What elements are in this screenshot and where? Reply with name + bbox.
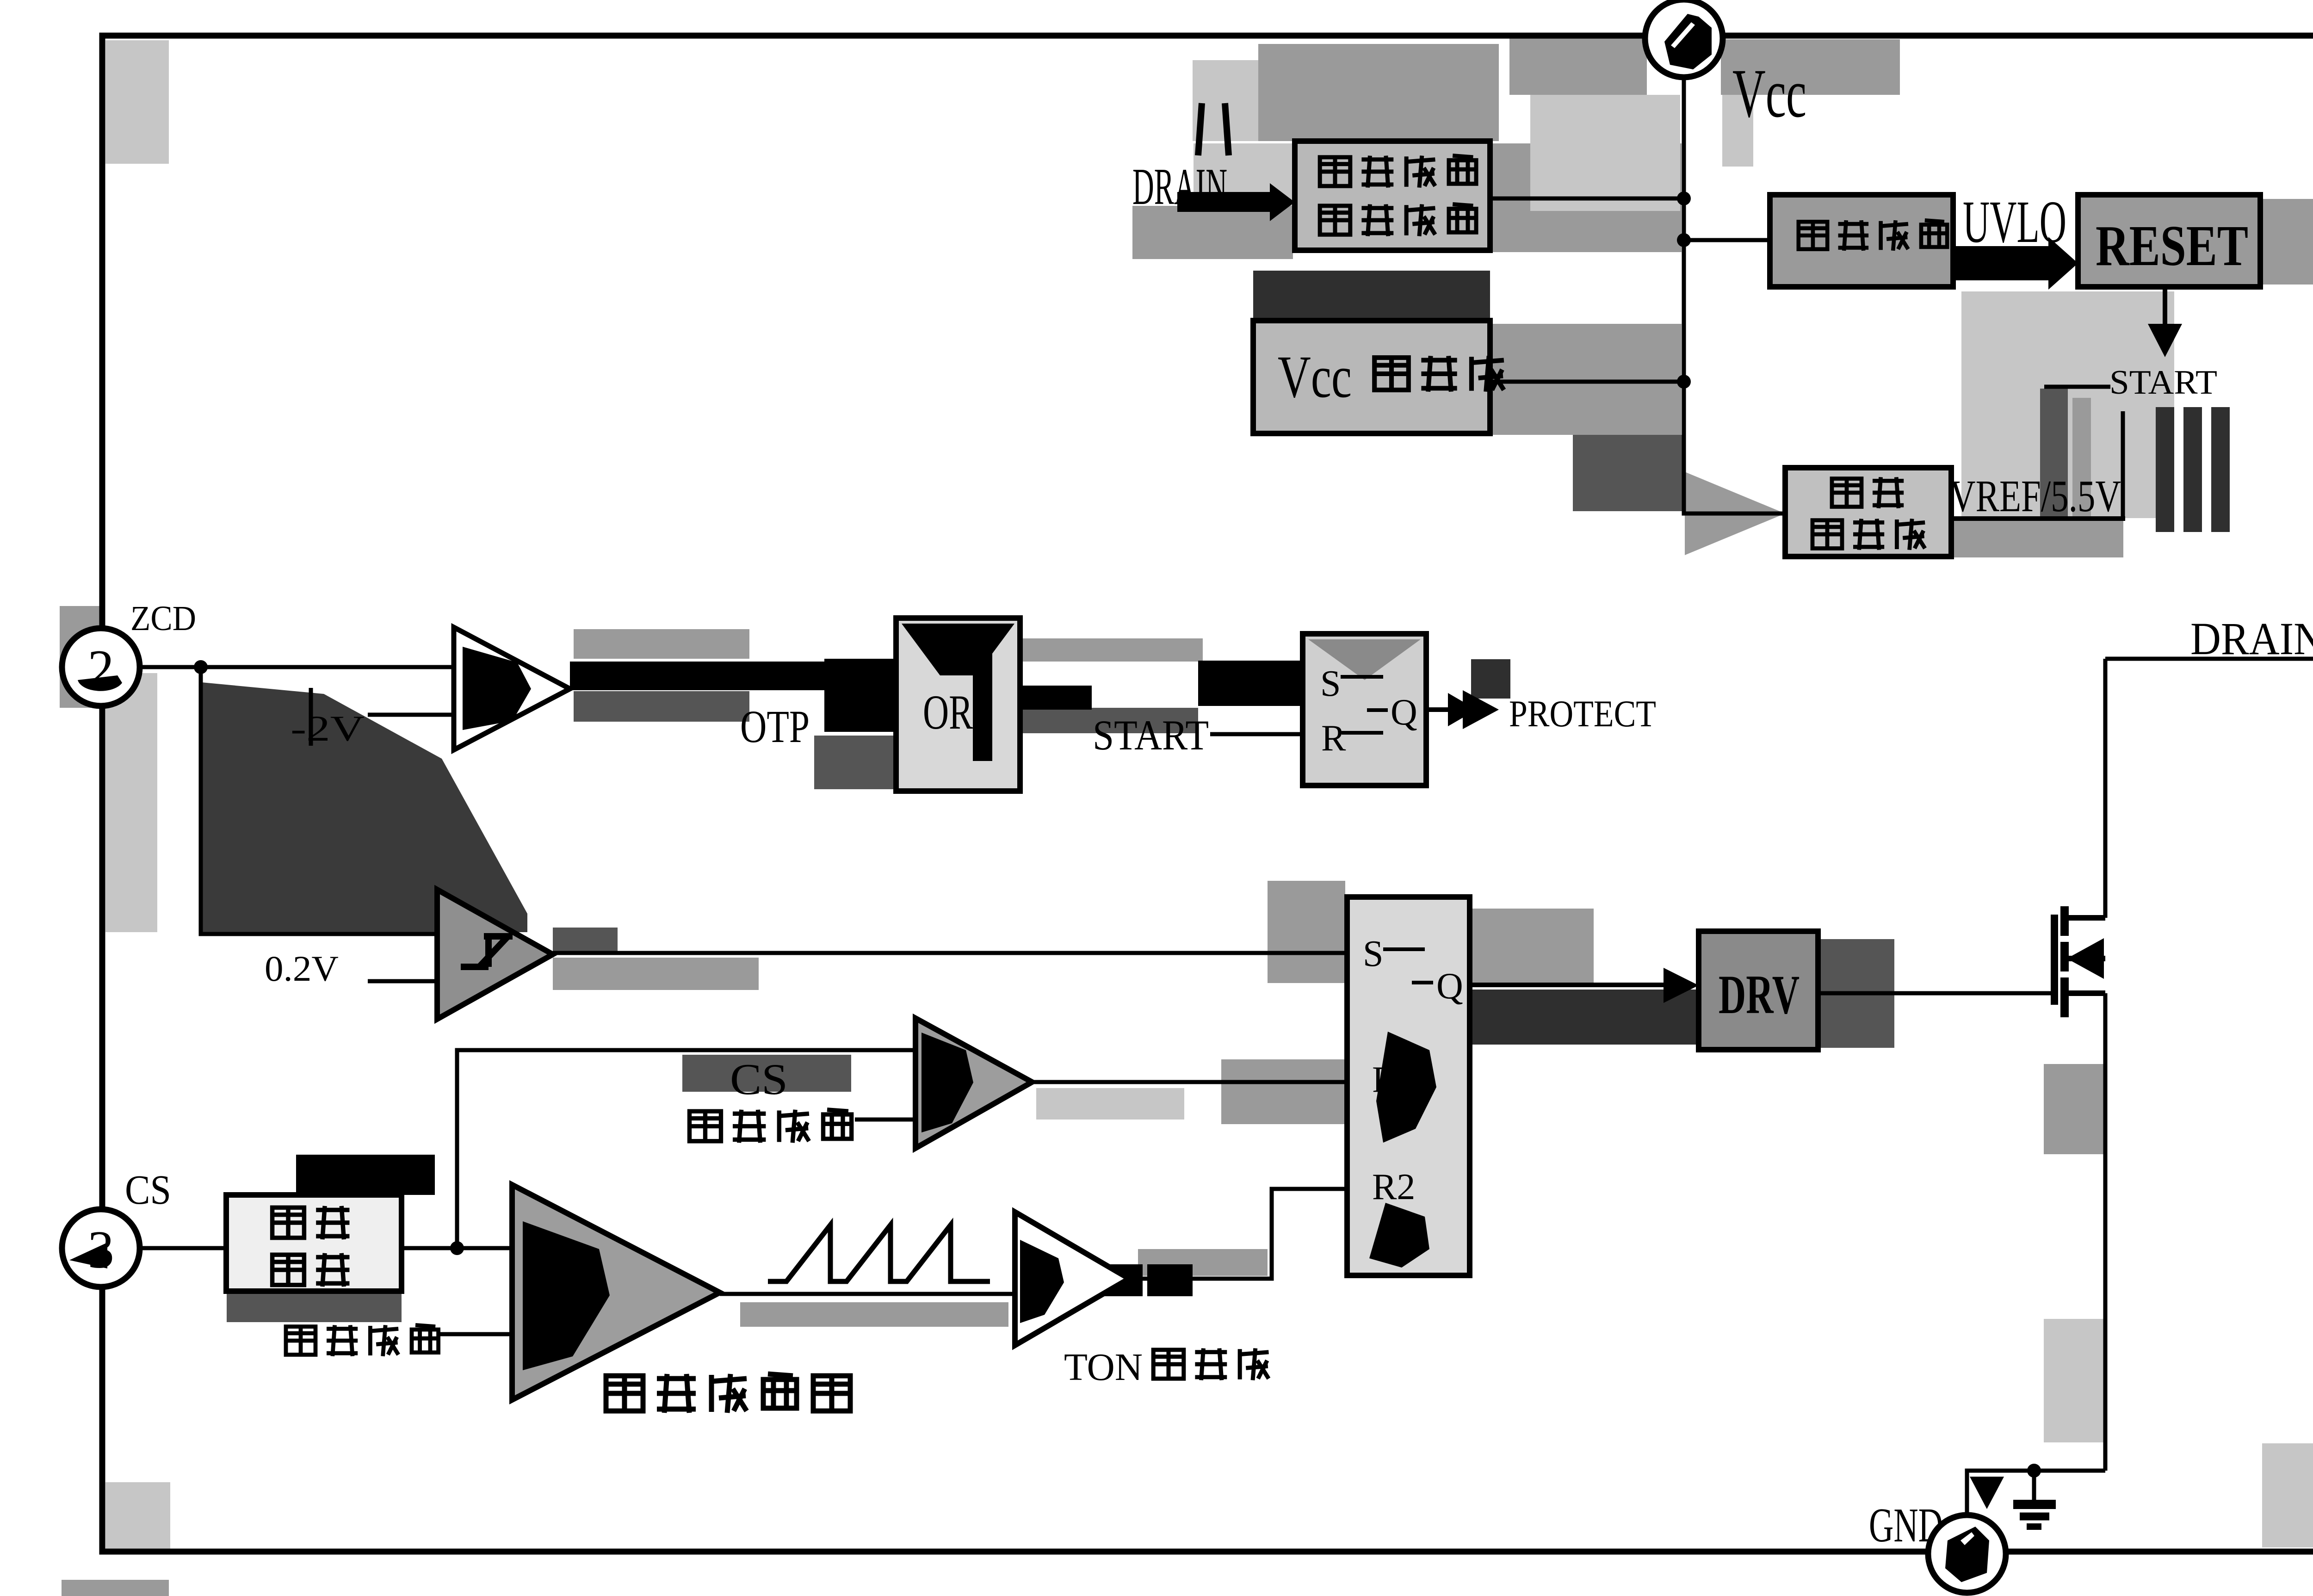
black blob above polarity box <box>296 1155 435 1195</box>
wire amp output to TON comparator <box>720 1292 1015 1296</box>
wire ZCD to comparator + <box>140 665 454 669</box>
svg-text:Vcc: Vcc <box>1732 55 1806 132</box>
text 内部 <box>1832 477 1904 508</box>
svg-text:RESET: RESET <box>2096 214 2248 278</box>
pin 1 Vcc <box>1645 0 1723 77</box>
gray wedge sr1 <box>1308 639 1421 680</box>
SR latch 2 (main) <box>1347 897 1470 1275</box>
svg-text:CS: CS <box>730 1055 788 1104</box>
svg-text:VREF/5.5V: VREF/5.5V <box>1950 471 2121 521</box>
blob below TON 2 <box>1147 1264 1193 1296</box>
blob in pin 3 <box>69 1243 107 1268</box>
wire CS pin to polarity box <box>140 1246 226 1250</box>
svg-text:START: START <box>2109 364 2217 402</box>
wire HV-supply output to Vcc rail <box>1490 197 1684 201</box>
drain link <box>2064 915 2105 921</box>
wire OCP out to R1 <box>1032 1080 1347 1084</box>
text 极性 <box>272 1206 350 1239</box>
wire left of START label <box>2044 385 2110 389</box>
junction ZCD node <box>194 660 208 674</box>
wire source rail to GND pin <box>1967 1471 2105 1515</box>
wire -2V stub to comparator - <box>368 713 454 717</box>
gate bar <box>2051 915 2058 1005</box>
block: RESET <box>2078 195 2260 287</box>
OR gate box <box>896 618 1020 791</box>
block: high-voltage supply control module <box>1295 141 1490 250</box>
body link <box>2064 956 2105 961</box>
black wedge inside OR box <box>902 624 1014 675</box>
text 跨导放大器 <box>606 1374 850 1413</box>
svg-text:R2: R2 <box>1372 1167 1415 1207</box>
text 转换 <box>272 1253 350 1287</box>
source link <box>2064 990 2105 996</box>
pin 3 CS <box>62 1209 140 1287</box>
svg-text:START: START <box>1093 711 1209 759</box>
junction CS node <box>450 1241 464 1255</box>
svg-text:Q: Q <box>1436 966 1463 1007</box>
arrowhead into DRV <box>1664 968 1699 1003</box>
junction Vcc rail / regulator output <box>1677 375 1691 389</box>
gray artifact patches <box>105 40 169 164</box>
DRV driver box <box>1699 931 1818 1050</box>
wire Q2 to DRV <box>1470 983 1664 987</box>
wire DRAIN pin to MOSFET <box>2105 657 2313 661</box>
wire VREF riser <box>2121 411 2125 519</box>
TON comparator <box>1015 1212 1129 1345</box>
SR latch 1 (protect) <box>1303 634 1426 786</box>
wire drain up to DRAIN node <box>2103 659 2108 918</box>
wire hysteresis comparator to SR2 S input <box>553 951 1347 955</box>
svg-text:DRV: DRV <box>1719 964 1800 1025</box>
pin 4 GND <box>1928 1515 2006 1593</box>
arrow DRAIN into HV supply block <box>1177 192 1270 212</box>
body arrow <box>2067 938 2104 979</box>
wire ZCD down to hysteresis comparator <box>201 667 437 934</box>
junction Vcc rail / UVLO tap <box>1677 233 1691 247</box>
wire CS sense up to OCP + <box>457 1050 915 1248</box>
thick OTP output bar <box>570 662 826 690</box>
text 控制模块 <box>1320 204 1476 236</box>
text 欠压检测 <box>1799 220 1947 251</box>
svg-text:Vcc: Vcc <box>1278 344 1352 410</box>
text 电压轨 <box>1812 519 1925 550</box>
text 稳压管 <box>1374 356 1504 391</box>
svg-text:DRAIN: DRAIN <box>2190 613 2313 664</box>
OR output bar + START wire to SR latch <box>1020 686 1092 710</box>
wire polarity box to transconductance amp + <box>402 1246 512 1250</box>
VREF bus line <box>1951 516 2125 521</box>
transconductance amplifier (跨导放大器) <box>512 1185 720 1400</box>
OCP comparator U3 <box>915 1018 1032 1148</box>
svg-text:ZCD: ZCD <box>130 599 196 638</box>
block: undervoltage detect (欠压检测) <box>1770 195 1953 287</box>
svg-text:R: R <box>1321 718 1346 759</box>
block: VCC regulator (Vcc 稳压管) <box>1253 321 1490 433</box>
blob below TON <box>1098 1264 1143 1296</box>
ground symbol <box>2032 1471 2036 1502</box>
block: internal voltage rail (内部电压轨) <box>1785 468 1951 557</box>
wire source down to ground rail <box>2103 993 2108 1471</box>
svg-text:OTP: OTP <box>740 701 810 752</box>
arrow RESET down to START <box>2163 287 2167 327</box>
svg-text:TON: TON <box>1064 1346 1143 1389</box>
PROTECT output arrow <box>1426 707 1457 712</box>
comparator U1 (ZCD vs -2V) <box>454 627 570 750</box>
arrow UVLO into RESET <box>1953 246 2048 280</box>
wire Vcc rail to UVLO detect <box>1684 238 1770 242</box>
text 高压供电 <box>1320 156 1476 188</box>
wire TON out to R2 <box>1129 1189 1347 1279</box>
wire DRV to gate <box>1818 991 2052 996</box>
wire 0.2V stub <box>368 979 437 984</box>
svg-text:OR: OR <box>923 685 973 739</box>
svg-text:0.2V: 0.2V <box>265 948 339 989</box>
wire current-limit ref stub <box>855 1118 915 1122</box>
junction ground node <box>2027 1464 2041 1478</box>
svg-text:Q: Q <box>1391 692 1417 733</box>
wire Vcc rail vertical from pin 1 <box>1684 77 1785 513</box>
text 恒流基准 <box>286 1325 439 1356</box>
svg-text:S: S <box>1320 663 1341 704</box>
sawtooth ramp symbol <box>768 1225 990 1281</box>
wire constant-current ref stub <box>439 1332 512 1336</box>
pin 2 ZCD <box>62 628 140 706</box>
junction Vcc rail / HV output <box>1677 192 1691 205</box>
hysteresis comparator U2 <box>437 890 553 1019</box>
capacitor-like strokes above DRAIN <box>1198 103 1202 155</box>
text 限流基准 <box>690 1110 852 1143</box>
svg-text:CS: CS <box>125 1167 171 1213</box>
wire VCC regulator output to Vcc rail <box>1490 380 1684 384</box>
svg-text:-2V: -2V <box>291 708 365 749</box>
svg-text:PROTECT: PROTECT <box>1509 693 1656 735</box>
svg-text:S: S <box>1363 934 1384 974</box>
tick of -2V label <box>309 688 313 746</box>
